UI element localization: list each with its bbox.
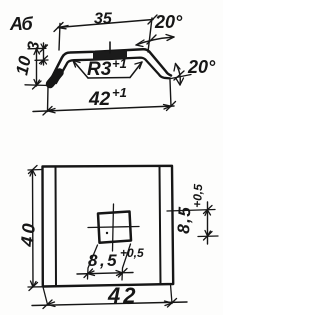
section fill of top flat (cut through hole zone) (93, 50, 127, 60)
right dimension 8,5: dim line (207, 202, 209, 244)
R3+1 leader right arrow (130, 62, 142, 78)
dimension 10: arrows + ticks (34, 49, 40, 85)
svg-text:42: 42 (88, 89, 111, 110)
bottom dimension 42: dim line (32, 302, 187, 306)
dimension 42+1: arrows + ticks (48, 109, 56, 113)
dimension 35: dim line (58, 20, 153, 28)
right dimension 8,5: arrows + ticks (205, 210, 211, 236)
svg-text:42: 42 (107, 283, 138, 308)
R3+1 leader left arrow (73, 61, 88, 79)
svg-text:20°: 20° (154, 12, 183, 32)
bottom dimension 42: arrows + ticks (48, 301, 173, 307)
svg-text:35: 35 (94, 11, 113, 28)
R3+1 leader shelf (88, 77, 130, 80)
square hole (98, 212, 131, 243)
dimension 40: arrows + ticks (30, 170, 36, 287)
svg-text:+1: +1 (112, 56, 127, 71)
svg-text:+1: +1 (112, 85, 127, 100)
dimension 3: dim line with arrows/ticks (43, 43, 45, 65)
dimension 40: extension lines (28, 169, 42, 172)
svg-text:Аб: Аб (9, 14, 34, 34)
bottom dimension 8,5+0,5: extension lines (88, 245, 98, 279)
bottom dimension 42: extension lines (43, 287, 48, 305)
plate left bend line (55, 167, 58, 287)
profile inner outline (56, 58, 170, 83)
lower 20deg: extension of tab (171, 75, 191, 79)
bottom dimension 8,5: dim line (77, 273, 133, 275)
hole centerline horizontal (88, 227, 139, 228)
bottom dimension 8,5: arrows + ticks (88, 271, 122, 276)
dimension 42+1: dim line (33, 106, 174, 112)
svg-text:8,5: 8,5 (88, 251, 119, 270)
dimension 35: right tick (148, 15, 157, 24)
svg-text:20°: 20° (187, 57, 216, 77)
dot inside hole (106, 232, 108, 234)
upper 20deg: arc with arrows (136, 37, 174, 45)
hole centerline vertical (113, 204, 114, 251)
dimension 40: dim line (32, 170, 35, 287)
svg-text:+0,5: +0,5 (120, 246, 144, 260)
dimension 35: left extension line (59, 24, 60, 51)
svg-text:R3: R3 (87, 59, 112, 80)
dimension 42+1 (top view): extension lines (47, 87, 50, 112)
svg-text:10: 10 (12, 54, 35, 77)
plate right bend line (160, 166, 161, 284)
svg-text:3: 3 (25, 40, 43, 51)
hole centerline above flat (109, 42, 111, 53)
lower 20deg: arc with arrows (176, 64, 181, 86)
extension line shared by 35 and upper 20 (148, 18, 152, 52)
upper 20deg: tick at crossing (147, 35, 156, 44)
profile outer outline (50, 49, 171, 81)
right dimension 8,5+0,5: extension lines (167, 210, 215, 212)
dimension 10: dim line (36, 48, 38, 86)
dimension 3: extension lines (28, 47, 46, 50)
svg-text:8,5: 8,5 (174, 205, 194, 234)
svg-text:40: 40 (17, 220, 39, 249)
plate outer rectangle (43, 166, 174, 287)
profile left tab (thick cut end) (50, 73, 60, 85)
svg-text:+0,5: +0,5 (190, 183, 205, 208)
dimension 35: left arrow + tick (54, 23, 68, 32)
lower 20deg: tick at crossing (174, 71, 184, 80)
dimension 10: bottom extension line (25, 84, 49, 87)
